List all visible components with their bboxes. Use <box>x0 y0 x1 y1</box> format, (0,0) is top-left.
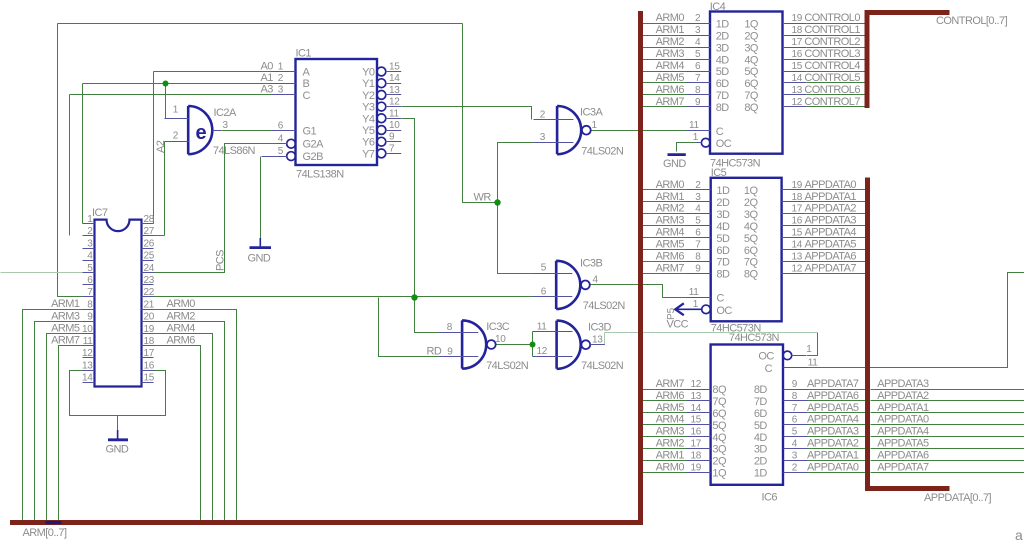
op-amp style box IC1 74LS138N body <box>296 59 378 165</box>
latch box IC6 74HC573N body <box>711 345 783 485</box>
svg-text:ARM4: ARM4 <box>656 227 685 239</box>
wire IC7 pin 27 stub link <box>154 235 165 237</box>
svg-text:C: C <box>716 293 724 305</box>
svg-text:GND: GND <box>248 253 271 265</box>
svg-text:3Q: 3Q <box>712 444 727 456</box>
wire IC1 Y3 to IC3A pin 2 <box>402 107 532 120</box>
svg-text:74LS02N: 74LS02N <box>486 360 529 372</box>
svg-text:18: 18 <box>792 192 803 203</box>
svg-text:20: 20 <box>144 312 155 323</box>
svg-text:9: 9 <box>792 379 798 390</box>
svg-text:22: 22 <box>144 287 155 298</box>
svg-text:APPDATA5: APPDATA5 <box>877 438 929 450</box>
svg-text:ARM1: ARM1 <box>656 191 685 203</box>
svg-text:7: 7 <box>792 403 798 414</box>
svg-text:5D: 5D <box>754 420 768 432</box>
svg-text:ARM1: ARM1 <box>51 298 80 310</box>
svg-text:6Q: 6Q <box>744 245 759 257</box>
wire IC3A output to IC4 pin C <box>591 130 687 132</box>
svg-text:18: 18 <box>792 25 803 36</box>
VCC supply arrow at IC5 OC <box>678 308 702 310</box>
svg-text:Y7: Y7 <box>362 148 375 160</box>
svg-text:APPDATA6: APPDATA6 <box>805 251 857 263</box>
svg-text:CONTROL[0..7]: CONTROL[0..7] <box>936 15 1008 27</box>
svg-text:APPDATA5: APPDATA5 <box>805 239 857 251</box>
svg-text:CONTROL0: CONTROL0 <box>804 12 860 24</box>
svg-text:11: 11 <box>808 358 819 369</box>
svg-text:5Q: 5Q <box>712 420 727 432</box>
svg-text:1Q: 1Q <box>744 18 759 30</box>
svg-text:OC: OC <box>716 138 732 150</box>
gate IC3A 74LS02N body <box>557 106 581 154</box>
svg-text:A2: A2 <box>155 140 167 153</box>
svg-text:2: 2 <box>278 73 284 84</box>
wire IC7 pin 22 long line to IC3B pin 6 <box>154 296 533 298</box>
svg-text:IC3B: IC3B <box>580 258 602 270</box>
svg-text:ARM3: ARM3 <box>656 426 685 438</box>
svg-text:5: 5 <box>87 263 93 274</box>
IC2A pin stubs <box>165 119 222 142</box>
svg-text:CONTROL6: CONTROL6 <box>804 84 860 96</box>
wire WR riser to IC3A pin 3 and down to IC3B pin 5 <box>498 143 534 274</box>
svg-text:PCS: PCS <box>215 250 227 271</box>
svg-text:ARM7: ARM7 <box>656 262 685 274</box>
svg-text:9: 9 <box>447 347 453 358</box>
svg-text:28: 28 <box>144 214 155 225</box>
IC1 pin stubs right Y0-Y7 <box>386 72 402 154</box>
wire net A1 vertical to IC7 pin 1 <box>82 84 84 224</box>
svg-text:ARM2: ARM2 <box>167 310 196 322</box>
svg-text:16: 16 <box>144 360 155 371</box>
svg-text:CONTROL7: CONTROL7 <box>804 96 860 108</box>
svg-text:5: 5 <box>792 427 798 438</box>
svg-text:IC1: IC1 <box>296 48 312 60</box>
IC1 pin stubs left A B C G1 <box>272 72 296 131</box>
svg-text:6Q: 6Q <box>744 78 759 90</box>
svg-text:1Q: 1Q <box>744 185 759 197</box>
svg-text:19: 19 <box>690 462 701 473</box>
wire net ARM0 from IC7 pin 21 to bus <box>154 310 237 523</box>
svg-text:2Q: 2Q <box>744 197 759 209</box>
svg-text:ARM6: ARM6 <box>167 335 196 347</box>
svg-text:10: 10 <box>495 334 506 345</box>
svg-text:13: 13 <box>792 85 803 96</box>
svg-text:13: 13 <box>592 335 603 346</box>
svg-text:APPDATA0: APPDATA0 <box>805 179 857 191</box>
svg-text:19: 19 <box>144 324 155 335</box>
IC3D output stub <box>591 344 605 346</box>
svg-text:14: 14 <box>389 73 400 84</box>
wire top long line pin7 net <box>58 23 463 25</box>
svg-text:4: 4 <box>792 439 798 450</box>
bus ARM vertical left of IC4/IC5/IC6 <box>638 11 643 525</box>
svg-text:ARM2: ARM2 <box>656 203 685 215</box>
svg-text:APPDATA5: APPDATA5 <box>807 402 859 414</box>
svg-text:P5: P5 <box>666 307 677 320</box>
svg-text:25: 25 <box>144 251 155 262</box>
svg-text:e: e <box>196 122 207 144</box>
svg-text:APPDATA0: APPDATA0 <box>877 414 929 426</box>
svg-text:2: 2 <box>695 180 701 191</box>
svg-text:6: 6 <box>87 275 93 286</box>
svg-text:ARM[0..7]: ARM[0..7] <box>23 527 67 539</box>
svg-text:ARM2: ARM2 <box>656 438 685 450</box>
svg-text:5: 5 <box>695 216 701 227</box>
wire net ARM3 from IC7 pin 9 to bus <box>35 322 83 523</box>
svg-text:6: 6 <box>695 61 701 72</box>
svg-text:7: 7 <box>389 143 395 154</box>
wire IC2A output to IC1 G1 <box>222 130 272 132</box>
svg-text:ARM7: ARM7 <box>656 378 685 390</box>
svg-text:4Q: 4Q <box>744 221 759 233</box>
wires IC6 right rows to APPDATA bus <box>807 389 866 391</box>
wire IC4 OC to GND <box>677 143 696 152</box>
svg-text:13: 13 <box>389 85 400 96</box>
svg-text:APPDATA7: APPDATA7 <box>807 378 859 390</box>
svg-text:3Q: 3Q <box>744 42 759 54</box>
wire GND stem under IC1 from G2B <box>260 157 262 239</box>
svg-text:15: 15 <box>792 61 803 72</box>
wire IC1 Y4 down to junction <box>402 119 439 333</box>
gate IC3D 74LS02N body <box>557 321 581 369</box>
svg-text:1D: 1D <box>716 18 730 30</box>
bus ARM bottom horizontal <box>10 520 643 525</box>
svg-text:15: 15 <box>792 228 803 239</box>
svg-text:19: 19 <box>792 13 803 24</box>
wires APPDATA stubs right of bus to right edge <box>871 389 1024 391</box>
svg-text:ARM6: ARM6 <box>656 251 685 263</box>
svg-text:17: 17 <box>792 204 803 215</box>
svg-text:ARM1: ARM1 <box>656 449 685 461</box>
svg-text:7Q: 7Q <box>744 90 759 102</box>
svg-text:74LS02N: 74LS02N <box>581 145 624 157</box>
svg-text:ARM3: ARM3 <box>51 310 80 322</box>
ground symbol bar under IC7 <box>117 430 119 439</box>
svg-text:12: 12 <box>82 348 93 359</box>
ground symbol bar under IC1 <box>259 238 261 246</box>
svg-text:APPDATA4: APPDATA4 <box>807 414 859 426</box>
svg-text:ARM7: ARM7 <box>656 96 685 108</box>
svg-text:G2B: G2B <box>303 151 324 163</box>
wire net ARM2 from IC7 pin 20 to bus <box>154 322 225 523</box>
svg-text:14: 14 <box>792 240 803 251</box>
svg-text:3D: 3D <box>716 209 730 221</box>
wire WR vertical from top line <box>463 24 498 203</box>
IC7 DIP body <box>95 220 142 387</box>
svg-text:ARM5: ARM5 <box>51 323 80 335</box>
svg-text:APPDATA1: APPDATA1 <box>805 191 857 203</box>
svg-text:APPDATA2: APPDATA2 <box>805 203 857 215</box>
svg-text:ARM7: ARM7 <box>51 335 80 347</box>
svg-text:6Q: 6Q <box>712 408 727 420</box>
IC4 right stubs <box>783 24 807 107</box>
ground symbol bar near IC4 <box>668 153 686 156</box>
IC4 left stubs <box>687 24 711 143</box>
svg-text:18: 18 <box>144 336 155 347</box>
svg-text:17: 17 <box>690 439 701 450</box>
svg-text:5Q: 5Q <box>744 66 759 78</box>
svg-text:CONTROL4: CONTROL4 <box>804 60 860 72</box>
svg-text:8D: 8D <box>716 269 730 281</box>
svg-text:ARM6: ARM6 <box>656 390 685 402</box>
svg-text:12: 12 <box>536 346 547 357</box>
svg-text:4: 4 <box>87 251 93 262</box>
svg-text:3: 3 <box>87 238 93 249</box>
svg-text:74LS02N: 74LS02N <box>581 360 624 372</box>
svg-text:24: 24 <box>144 263 155 274</box>
IC6 right stubs <box>784 356 808 473</box>
IC7 pin stubs right 28-15 <box>142 224 154 383</box>
node junction IC3C output <box>530 342 536 348</box>
svg-text:13: 13 <box>690 391 701 402</box>
svg-text:APPDATA3: APPDATA3 <box>807 426 859 438</box>
wire net A1 branch down to IC2A pin 1 <box>165 84 167 119</box>
svg-text:A3: A3 <box>261 84 274 96</box>
svg-text:2: 2 <box>173 130 179 141</box>
svg-text:17: 17 <box>792 37 803 48</box>
svg-text:27: 27 <box>144 226 155 237</box>
svg-text:12: 12 <box>792 97 803 108</box>
svg-text:13: 13 <box>792 252 803 263</box>
svg-text:6: 6 <box>695 228 701 239</box>
wire GND loop under IC7 <box>70 371 166 416</box>
node WR junction <box>494 199 500 205</box>
svg-text:1: 1 <box>806 344 812 355</box>
svg-text:2: 2 <box>792 462 798 473</box>
svg-text:CONTROL1: CONTROL1 <box>804 24 860 36</box>
svg-text:2: 2 <box>695 13 701 24</box>
svg-text:ARM4: ARM4 <box>656 60 685 72</box>
IC1 pin stubs G2A G2B <box>262 144 288 157</box>
svg-text:APPDATA2: APPDATA2 <box>877 390 929 402</box>
svg-text:74LS02N: 74LS02N <box>583 300 626 312</box>
svg-text:8D: 8D <box>754 384 768 396</box>
IC5 OC bubble <box>702 305 711 314</box>
svg-text:74LS86N: 74LS86N <box>213 145 256 157</box>
svg-text:C: C <box>303 90 311 102</box>
wire junction to IC3D pin 12 <box>532 345 534 357</box>
svg-text:G2A: G2A <box>303 139 325 151</box>
svg-text:Y6: Y6 <box>362 137 375 149</box>
svg-text:12: 12 <box>690 379 701 390</box>
svg-text:IC3D: IC3D <box>588 321 611 333</box>
svg-text:OC: OC <box>758 351 774 363</box>
IC3A input stubs <box>534 120 574 143</box>
svg-text:ARM0: ARM0 <box>656 461 685 473</box>
IC5 left stubs <box>687 190 711 298</box>
wires IC4 right rows to CONTROL bus <box>807 23 865 25</box>
svg-text:4D: 4D <box>716 221 730 233</box>
svg-text:A1: A1 <box>261 72 274 84</box>
wire net A1 horizontal to IC1 pin B <box>83 83 272 85</box>
IC3C output bubble <box>487 340 496 349</box>
svg-text:IC2A: IC2A <box>214 107 237 119</box>
wire junction to IC3D pin 11 <box>532 332 534 345</box>
svg-text:2D: 2D <box>754 456 768 468</box>
wire IC3C output to junction dot <box>496 344 533 346</box>
svg-text:APPDATA1: APPDATA1 <box>807 449 859 461</box>
wires IC5 left rows from ARM bus <box>643 189 687 191</box>
svg-text:5: 5 <box>695 49 701 60</box>
svg-text:18: 18 <box>690 450 701 461</box>
svg-text:C: C <box>765 363 773 375</box>
svg-text:23: 23 <box>144 275 155 286</box>
svg-text:1: 1 <box>592 120 598 131</box>
svg-text:15: 15 <box>389 62 400 73</box>
svg-text:GND: GND <box>106 444 129 456</box>
svg-text:7D: 7D <box>716 257 730 269</box>
svg-text:5: 5 <box>278 146 284 157</box>
svg-text:7: 7 <box>695 240 701 251</box>
IC6 left stubs <box>687 390 711 473</box>
svg-text:IC6: IC6 <box>762 492 778 504</box>
svg-text:9: 9 <box>695 263 701 274</box>
svg-text:APPDATA7: APPDATA7 <box>805 262 857 274</box>
svg-text:WR: WR <box>474 192 492 204</box>
svg-text:Y0: Y0 <box>362 67 375 79</box>
svg-text:CONTROL2: CONTROL2 <box>804 36 860 48</box>
svg-text:6D: 6D <box>754 408 768 420</box>
svg-text:3: 3 <box>695 192 701 203</box>
svg-text:4: 4 <box>695 37 701 48</box>
svg-text:ARM2: ARM2 <box>656 36 685 48</box>
svg-text:15: 15 <box>144 373 155 384</box>
bus CONTROL top right <box>867 13 950 109</box>
svg-text:3D: 3D <box>716 42 730 54</box>
wire net ARM6 from IC7 pin 18 to bus <box>154 346 201 523</box>
svg-text:8Q: 8Q <box>712 384 727 396</box>
svg-text:4Q: 4Q <box>712 432 727 444</box>
svg-text:4: 4 <box>695 204 701 215</box>
IC3A output bubble <box>582 126 591 135</box>
svg-text:2D: 2D <box>716 30 730 42</box>
svg-text:2: 2 <box>87 226 93 237</box>
svg-text:1: 1 <box>278 61 284 72</box>
svg-text:ARM3: ARM3 <box>656 48 685 60</box>
svg-text:7: 7 <box>695 73 701 84</box>
svg-text:C: C <box>716 126 724 138</box>
svg-text:12: 12 <box>792 263 803 274</box>
svg-text:8: 8 <box>87 299 93 310</box>
IC1 input bubbles G2A G2B <box>287 139 296 148</box>
svg-text:G1: G1 <box>303 126 317 138</box>
wire net A3 horizontal to IC1 pin C <box>70 94 272 96</box>
latch box IC5 74HC573N body <box>711 178 782 321</box>
latch box IC4 74HC573N body <box>710 12 783 154</box>
svg-text:1: 1 <box>87 214 93 225</box>
wire net ARM5 from IC7 pin 10 to bus <box>47 334 83 523</box>
svg-text:8: 8 <box>447 322 453 333</box>
svg-text:IC5: IC5 <box>711 167 727 179</box>
svg-text:APPDATA0: APPDATA0 <box>807 461 859 473</box>
IC3B input stubs <box>533 274 573 297</box>
wire net A0 horizontal to IC1 pin A <box>154 71 272 73</box>
svg-text:3: 3 <box>540 132 546 143</box>
svg-text:13: 13 <box>82 360 93 371</box>
gate IC3B 74LS02N body <box>556 261 580 309</box>
svg-text:3D: 3D <box>754 444 768 456</box>
transistor-free gate IC2A 74LS86N body <box>188 106 212 154</box>
svg-text:4D: 4D <box>754 432 768 444</box>
svg-text:11: 11 <box>689 120 700 131</box>
svg-text:3Q: 3Q <box>744 209 759 221</box>
svg-text:IC3A: IC3A <box>580 107 603 119</box>
svg-text:1: 1 <box>693 132 699 143</box>
svg-text:11: 11 <box>389 108 400 119</box>
svg-text:3: 3 <box>792 450 798 461</box>
svg-text:APPDATA2: APPDATA2 <box>807 438 859 450</box>
svg-text:1D: 1D <box>754 468 768 480</box>
wires IC4 left rows from ARM bus <box>643 23 687 25</box>
wire net PCS IC7 pin 24 to IC1 G2A <box>154 144 277 273</box>
svg-text:A0: A0 <box>261 60 274 72</box>
svg-text:8Q: 8Q <box>744 269 759 281</box>
svg-text:CONTROL3: CONTROL3 <box>804 48 860 60</box>
svg-text:6: 6 <box>541 287 547 298</box>
svg-text:ARM0: ARM0 <box>656 12 685 24</box>
wire net A0 vertical to IC7 pin 28 <box>153 72 155 224</box>
svg-text:7D: 7D <box>754 396 768 408</box>
svg-text:ARM5: ARM5 <box>656 402 685 414</box>
svg-text:5Q: 5Q <box>744 233 759 245</box>
svg-text:6: 6 <box>278 121 284 132</box>
IC6 OC bubble <box>783 351 792 360</box>
wire net ARM7 from IC7 pin 11 to bus <box>59 346 83 523</box>
svg-text:3: 3 <box>278 85 284 96</box>
bus ARM navy overlay segment <box>46 521 62 524</box>
svg-text:6D: 6D <box>716 78 730 90</box>
wire IC6 OC riser <box>807 333 818 356</box>
svg-text:17: 17 <box>144 348 155 359</box>
svg-text:ARM0: ARM0 <box>167 298 196 310</box>
svg-text:3: 3 <box>695 25 701 36</box>
svg-text:11: 11 <box>537 322 548 333</box>
svg-text:APPDATA3: APPDATA3 <box>805 215 857 227</box>
svg-text:14: 14 <box>792 73 803 84</box>
svg-text:4: 4 <box>278 134 284 145</box>
svg-text:1D: 1D <box>716 185 730 197</box>
svg-text:19: 19 <box>792 180 803 191</box>
svg-text:2Q: 2Q <box>712 456 727 468</box>
IC3D input stubs <box>533 332 573 357</box>
svg-text:10: 10 <box>82 324 93 335</box>
svg-text:16: 16 <box>792 49 803 60</box>
svg-text:APPDATA3: APPDATA3 <box>877 378 929 390</box>
svg-text:Y4: Y4 <box>362 113 375 125</box>
wire vertical left pin7 net <box>58 24 83 297</box>
svg-text:9: 9 <box>695 97 701 108</box>
svg-text:8: 8 <box>695 252 701 263</box>
svg-text:2D: 2D <box>716 197 730 209</box>
svg-text:ARM3: ARM3 <box>656 215 685 227</box>
svg-text:APPDATA4: APPDATA4 <box>805 227 857 239</box>
svg-text:1: 1 <box>693 299 699 310</box>
svg-text:21: 21 <box>144 299 155 310</box>
svg-text:4: 4 <box>593 275 599 286</box>
node junction on pin22 line <box>411 294 417 300</box>
svg-text:7: 7 <box>87 287 93 298</box>
svg-text:APPDATA4: APPDATA4 <box>877 426 929 438</box>
svg-text:14: 14 <box>82 373 93 384</box>
IC1 output bubbles Y0-Y7 <box>377 67 386 76</box>
svg-text:9: 9 <box>87 312 93 323</box>
svg-text:15: 15 <box>690 415 701 426</box>
svg-text:ARM4: ARM4 <box>167 323 196 335</box>
svg-text:2Q: 2Q <box>744 30 759 42</box>
IC4 OC bubble <box>701 138 710 147</box>
IC3C input stubs <box>439 333 479 357</box>
svg-text:12: 12 <box>389 97 400 108</box>
